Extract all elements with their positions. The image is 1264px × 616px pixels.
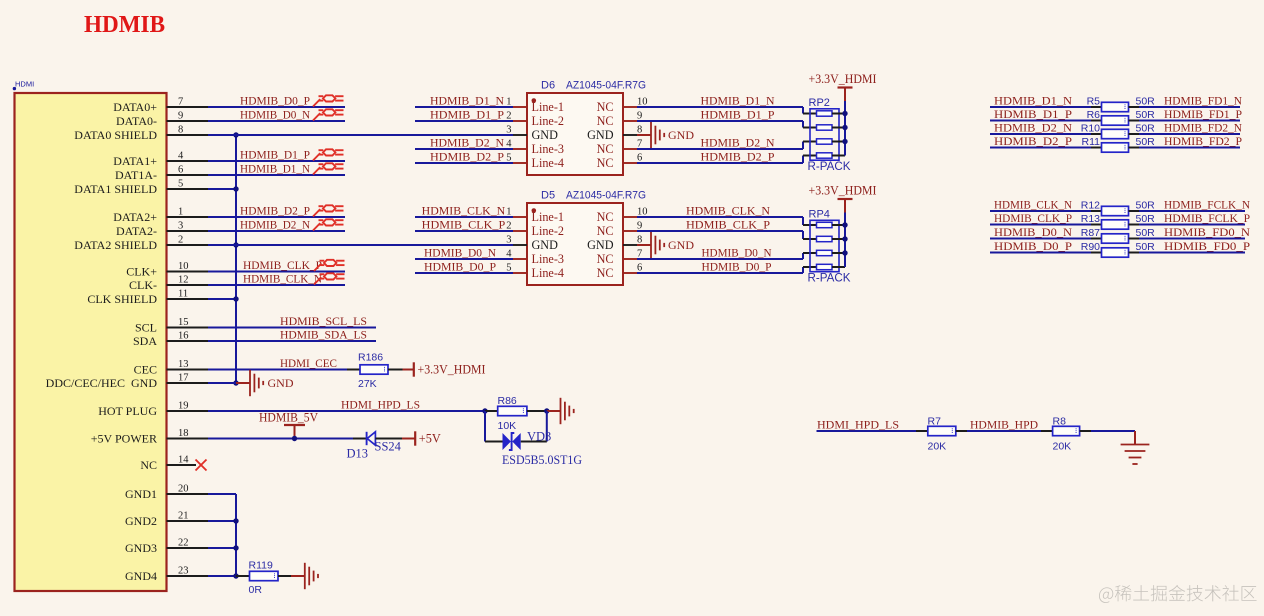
svg-text:HDMIB_CLK_N: HDMIB_CLK_N	[994, 199, 1073, 212]
svg-text:HDMIB_D1_P: HDMIB_D1_P	[240, 149, 310, 162]
connector pin 11 CLK SHIELD	[87, 289, 208, 306]
svg-text:HDMIB_D1_N: HDMIB_D1_N	[240, 163, 311, 176]
wire CLK SHIELD to bus	[208, 298, 236, 300]
svg-text:HDMIB_D0_P: HDMIB_D0_P	[240, 95, 310, 108]
net label HDMIB_D0_P	[702, 261, 772, 274]
connector pin 1 DATA2+	[113, 207, 208, 224]
net label HDMIB_D1_N	[240, 163, 311, 176]
net label HDMIB_D1_P	[701, 109, 776, 122]
net label HDMIB_D1_N	[430, 95, 505, 108]
svg-text:GND: GND	[268, 376, 294, 390]
svg-text:20K: 20K	[928, 441, 947, 453]
differential pair directive on HDMIB_CLK_N	[314, 273, 345, 284]
wire net HDMI_HPD_LS bottom	[817, 430, 917, 432]
junction GND3	[233, 545, 238, 550]
connector pin 2 DATA2 SHIELD	[74, 235, 208, 252]
resistor R186	[347, 352, 403, 391]
svg-text:CEC: CEC	[134, 363, 157, 377]
net label HDMIB_D1_P	[994, 108, 1073, 121]
wire net HDMIB_D2_P to RP2	[637, 156, 817, 164]
connector pin 20 GND1	[125, 484, 208, 501]
power ground GND at D5 pin 8	[637, 232, 694, 258]
net label HDMIB_SCL_LS	[280, 315, 367, 328]
svg-text:NC: NC	[140, 458, 157, 472]
svg-text:HDMIB_D1_N: HDMIB_D1_N	[994, 95, 1073, 108]
wire net HDMIB_CLK_N to RP4	[637, 217, 817, 225]
junction RP4 pin 2	[842, 236, 847, 241]
svg-text:GND: GND	[587, 238, 614, 252]
sheet label HDMI	[13, 80, 34, 91]
wire net HDMIB_CLK_P	[990, 224, 1091, 226]
net label HDMI_HPD_LS	[341, 399, 420, 412]
wire net HDMIB_D2_P	[208, 216, 345, 218]
svg-text:HDMIB_FD0_N: HDMIB_FD0_N	[1164, 226, 1251, 239]
net label HDMI_CEC	[280, 357, 337, 370]
svg-text:50R: 50R	[1136, 241, 1156, 253]
power port HDMIB_5V	[259, 410, 318, 438]
junction at pin17 GND	[233, 380, 238, 385]
wire net HDMIB_D0_N to D5	[415, 258, 513, 260]
svg-text:HDMI_HPD_LS: HDMI_HPD_LS	[341, 399, 420, 412]
wire net HDMIB_D0_N to RP4	[637, 253, 817, 259]
wire VD3 branch right	[521, 411, 547, 442]
svg-text:HDMIB_D0_P: HDMIB_D0_P	[702, 261, 772, 274]
svg-text:R90: R90	[1081, 241, 1100, 253]
connector pin 6 DAT1A-	[115, 165, 208, 182]
svg-text:NC: NC	[597, 224, 614, 238]
wire net HDMIB_D0_P to RP4	[637, 267, 817, 273]
svg-text:HDMIB: HDMIB	[84, 11, 165, 38]
connector pin 19 HOT PLUG	[98, 401, 208, 418]
wire DATA1 SHIELD to bus	[208, 188, 236, 190]
wire VD3 branch left	[485, 411, 503, 442]
TVS diode VD3 ESD5B5.0ST1G	[502, 429, 582, 467]
svg-text:NC: NC	[597, 156, 614, 170]
svg-text:R87: R87	[1081, 227, 1100, 239]
net label HDMIB_D2_N	[994, 122, 1073, 135]
svg-text:50R: 50R	[1136, 227, 1156, 239]
svg-text:SCL: SCL	[135, 321, 157, 335]
differential pair directive on HDMIB_D0_N	[313, 109, 344, 120]
svg-text:HDMIB_CLK_P: HDMIB_CLK_P	[994, 212, 1072, 225]
svg-text:R6: R6	[1087, 109, 1101, 121]
resistor R12 50R	[1081, 200, 1155, 216]
connector pin 7 DATA0+	[113, 97, 208, 114]
net label HDMIB_D2_N	[240, 219, 311, 232]
wire GND bus	[208, 494, 236, 576]
junction at R86 left	[482, 408, 487, 413]
resistor R8	[1041, 416, 1091, 453]
resistor pack RP4 R-PACK	[808, 209, 851, 285]
net label HDMIB_CLK_N	[243, 273, 323, 286]
net label HDMIB_D0_N	[994, 226, 1073, 239]
svg-text:GND: GND	[587, 128, 614, 142]
svg-text:GND: GND	[668, 128, 694, 142]
svg-text:Line-4: Line-4	[532, 266, 565, 280]
connector pin 21 GND2	[125, 511, 208, 528]
net label HDMIB_D2_P	[701, 151, 776, 164]
wire net HDMIB_D2_N to RP2	[637, 142, 817, 150]
net label HDMIB_FD1_N	[1164, 95, 1243, 108]
junction at DATA0 SHIELD	[233, 132, 238, 137]
junction GND2	[233, 518, 238, 523]
resistor R11 50R	[1082, 136, 1156, 152]
svg-text:GND3: GND3	[125, 541, 157, 555]
svg-text:DATA2 SHIELD: DATA2 SHIELD	[74, 238, 157, 252]
svg-text:HDMIB_D1_P: HDMIB_D1_P	[994, 108, 1073, 121]
svg-text:0R: 0R	[249, 584, 263, 596]
net label HDMIB_D0_P	[994, 240, 1073, 253]
D6 pin 4 Line-3	[506, 139, 564, 157]
svg-text:RP4: RP4	[809, 209, 830, 221]
wire net HDMIB_D0_N	[208, 120, 345, 122]
net label HDMIB_D2_P	[430, 151, 505, 164]
wire net HDMIB_CLK_N to D5	[415, 216, 513, 218]
diode D13 SS24	[347, 432, 403, 461]
D5 pin 9 NC	[597, 221, 643, 239]
svg-text:HDMIB_D0_P: HDMIB_D0_P	[424, 261, 496, 274]
svg-text:CLK-: CLK-	[129, 278, 157, 292]
net label HDMIB_CLK_N	[994, 199, 1073, 212]
svg-text:GND1: GND1	[125, 487, 157, 501]
net label HDMIB_D0_P	[424, 261, 496, 274]
svg-text:R8: R8	[1053, 416, 1067, 428]
svg-text:HDMIB_D2_N: HDMIB_D2_N	[701, 137, 776, 150]
svg-text:20K: 20K	[1053, 441, 1072, 453]
svg-text:Line-2: Line-2	[532, 224, 565, 238]
D5 pin 8 GND	[587, 235, 642, 253]
wire net HDMIB_D1_P	[990, 120, 1091, 122]
svg-text:DDC/CEC/HEC GND: DDC/CEC/HEC GND	[46, 376, 158, 390]
svg-text:HDMIB_FD2_P: HDMIB_FD2_P	[1164, 135, 1242, 148]
svg-text:GND2: GND2	[125, 514, 157, 528]
junction RP2 pin 1	[842, 111, 847, 116]
wire net HDMIB_D0_P	[208, 106, 345, 108]
svg-text:Line-4: Line-4	[532, 156, 565, 170]
svg-text:D13: D13	[347, 446, 369, 460]
svg-text:+3.3V_HDMI: +3.3V_HDMI	[809, 72, 877, 86]
power port +5V	[402, 431, 441, 445]
svg-text:SDA: SDA	[133, 334, 157, 348]
svg-text:NC: NC	[597, 252, 614, 266]
net label HDMIB_SDA_LS	[280, 329, 367, 342]
svg-text:DAT1A-: DAT1A-	[115, 168, 157, 182]
svg-text:HDMI: HDMI	[15, 80, 34, 89]
resistor R90 50R	[1081, 241, 1155, 257]
svg-text:HDMIB_D2_N: HDMIB_D2_N	[994, 122, 1073, 135]
svg-text:HDMIB_FD0_P: HDMIB_FD0_P	[1164, 240, 1251, 253]
wire net HDMIB_CLK_P to RP4	[637, 231, 817, 239]
svg-text:+5V: +5V	[419, 432, 441, 446]
svg-text:R119: R119	[249, 559, 273, 571]
svg-text:HDMIB_CLK_P: HDMIB_CLK_P	[243, 259, 322, 272]
connector pin 10 CLK+	[126, 261, 208, 278]
connector pin 13 CEC	[134, 359, 208, 376]
D5 pin 10 NC	[597, 207, 648, 225]
svg-text:HDMIB_CLK_N: HDMIB_CLK_N	[243, 273, 323, 286]
differential pair directive on HDMIB_D0_P	[313, 95, 344, 106]
svg-text:HDMIB_D2_N: HDMIB_D2_N	[240, 219, 311, 232]
svg-text:GND: GND	[532, 238, 559, 252]
svg-text:GND4: GND4	[125, 569, 157, 583]
svg-text:DATA1+: DATA1+	[113, 154, 157, 168]
svg-text:50R: 50R	[1136, 96, 1156, 108]
svg-text:HDMIB_D2_P: HDMIB_D2_P	[701, 151, 776, 164]
svg-text:3: 3	[506, 125, 511, 136]
wire net HDMIB_D2_N to D6	[415, 148, 513, 150]
net label HDMIB_D0_N	[424, 247, 497, 260]
power ground at R119	[291, 563, 318, 589]
svg-text:HDMIB_D1_N: HDMIB_D1_N	[430, 95, 505, 108]
svg-text:HDMIB_SDA_LS: HDMIB_SDA_LS	[280, 329, 367, 342]
svg-text:R10: R10	[1081, 123, 1100, 135]
wire net HDMIB_FCLK_P	[1139, 224, 1245, 226]
svg-text:50R: 50R	[1136, 123, 1156, 135]
svg-text:NC: NC	[597, 210, 614, 224]
wire net HDMIB_HPD	[967, 430, 1041, 432]
power ground at R8	[1121, 445, 1150, 465]
svg-text:NC: NC	[597, 266, 614, 280]
net label HDMIB_D2_N	[701, 137, 776, 150]
svg-text:10K: 10K	[498, 420, 517, 432]
svg-text:50R: 50R	[1136, 136, 1156, 148]
svg-text:HDMIB_SCL_LS: HDMIB_SCL_LS	[280, 315, 367, 328]
svg-text:HDMIB_FD1_P: HDMIB_FD1_P	[1164, 108, 1242, 121]
net label HDMIB_CLK_N	[686, 205, 771, 218]
power ground at R86 right	[547, 398, 574, 424]
svg-text:CLK+: CLK+	[126, 265, 157, 279]
svg-text:HDMIB_CLK_N: HDMIB_CLK_N	[686, 205, 771, 218]
resistor R86	[485, 395, 547, 432]
resistor R5 50R	[1087, 96, 1156, 112]
wire net HDMIB_D1_N	[990, 106, 1091, 108]
wire RP4 common bus	[844, 213, 846, 268]
wire shield row to D6 pin3	[208, 134, 513, 136]
wire net HDMIB_D0_P	[990, 252, 1091, 254]
net label HDMIB_D1_P	[430, 109, 505, 122]
connector pin 4 DATA1+	[113, 151, 208, 168]
svg-text:HDMIB_D2_N: HDMIB_D2_N	[430, 137, 505, 150]
svg-text:HDMIB_FD2_N: HDMIB_FD2_N	[1164, 122, 1243, 135]
net label HDMIB_FD0_N	[1164, 226, 1251, 239]
power ground GND at pin17	[250, 370, 294, 396]
connector pin 14 NC	[140, 455, 196, 472]
svg-text:HDMIB_D1_P: HDMIB_D1_P	[430, 109, 505, 122]
wire pin18 to D13	[208, 438, 353, 440]
svg-text:HOT PLUG: HOT PLUG	[98, 404, 157, 418]
D5 pin 7 NC	[597, 249, 643, 267]
connector pin 17 DDC/CEC/HEC GND	[46, 373, 208, 390]
D6 pin 1 Line-1	[506, 97, 564, 115]
wire pin17 to ground	[208, 382, 250, 384]
svg-text:D6: D6	[541, 80, 555, 92]
net label HDMIB_CLK_P	[994, 212, 1072, 225]
net label HDMI_HPD_LS bottom	[817, 419, 899, 432]
wire net HDMIB_CLK_N	[990, 210, 1091, 212]
junction at CLK SHIELD	[233, 296, 238, 301]
connector pin 18 +5V POWER	[91, 428, 208, 445]
svg-text:HDMIB_D0_N: HDMIB_D0_N	[702, 247, 773, 260]
junction RP2 pin 3	[842, 139, 847, 144]
svg-text:HDMIB_D2_P: HDMIB_D2_P	[240, 205, 310, 218]
net label HDMIB_D2_N	[430, 137, 505, 150]
net label HDMIB_D0_P	[240, 95, 310, 108]
wire net HDMIB_D0_P to D5	[415, 272, 513, 274]
D5 pin 1 Line-1	[506, 207, 564, 225]
net label HDMIB_CLK_P	[686, 219, 771, 232]
svg-text:50R: 50R	[1136, 200, 1156, 212]
svg-text:R13: R13	[1081, 213, 1100, 225]
svg-text:AZ1045-04F.R7G: AZ1045-04F.R7G	[566, 80, 646, 92]
svg-text:HDMIB_CLK_P: HDMIB_CLK_P	[686, 219, 771, 232]
connector pin 12 CLK-	[129, 275, 208, 292]
junction RP4 pin 1	[842, 222, 847, 227]
D6 pin 10 NC	[597, 97, 648, 115]
junction at R86 right	[544, 408, 549, 413]
resistor R6 50R	[1087, 109, 1156, 125]
net label HDMIB_FD2_P	[1164, 135, 1242, 148]
wire R8 to ground	[1091, 431, 1135, 445]
svg-text:Line-3: Line-3	[532, 142, 565, 156]
wire net HDMIB_CLK_P to D5	[415, 230, 513, 232]
junction at DATA1 SHIELD	[233, 186, 238, 191]
wire net HDMIB_D1_N to RP2	[637, 107, 817, 114]
no connect cross at pin14	[196, 460, 207, 471]
wire net HDMIB_D2_P	[990, 147, 1091, 149]
svg-text:NC: NC	[597, 100, 614, 114]
wire net HDMIB_D1_P to D6	[415, 120, 513, 122]
wire net HDMIB_FD1_P	[1139, 120, 1240, 122]
svg-text:27K: 27K	[358, 378, 377, 390]
svg-text:AZ1045-04F.R7G: AZ1045-04F.R7G	[566, 190, 646, 202]
IC D6 AZ1045-04F.R7G body	[527, 80, 646, 176]
connector pin 22 GND3	[125, 538, 208, 555]
power port +3.3V_HDMI at RP4	[809, 184, 877, 213]
svg-text:HDMIB_D1_P: HDMIB_D1_P	[701, 109, 776, 122]
D5 pin 3 GND	[506, 235, 558, 253]
svg-text:HDMI_HPD_LS: HDMI_HPD_LS	[817, 419, 899, 432]
svg-text:HDMIB_D0_N: HDMIB_D0_N	[424, 247, 497, 260]
junction RP2 pin 2	[842, 125, 847, 130]
D6 pin 9 NC	[597, 111, 643, 129]
wire net HDMIB_CLK_N	[208, 284, 345, 286]
D6 pin 8 GND	[587, 125, 642, 143]
wire net HDMIB_FD2_P	[1139, 147, 1240, 149]
net label HDMIB_D1_N	[701, 95, 776, 108]
connector pin 16 SDA	[133, 331, 208, 348]
svg-text:HDMIB_D2_P: HDMIB_D2_P	[430, 151, 505, 164]
wire net HDMIB_D2_N	[990, 133, 1091, 135]
svg-text:R86: R86	[498, 395, 517, 407]
svg-text:RP2: RP2	[809, 97, 830, 109]
net label HDMIB_D1_P	[240, 149, 310, 162]
svg-text:DATA1 SHIELD: DATA1 SHIELD	[74, 182, 157, 196]
svg-text:DATA2+: DATA2+	[113, 210, 157, 224]
resistor R13 50R	[1081, 213, 1155, 229]
power ground GND at D6 pin 8	[637, 122, 694, 148]
svg-text:50R: 50R	[1136, 213, 1156, 225]
svg-text:HDMIB_FCLK_P: HDMIB_FCLK_P	[1164, 212, 1250, 225]
net label HDMIB_D2_P	[994, 135, 1073, 148]
svg-text:Line-2: Line-2	[532, 114, 565, 128]
svg-text:VD3: VD3	[527, 429, 551, 443]
wire net HDMIB_FD0_N	[1139, 238, 1245, 240]
svg-text:R12: R12	[1081, 200, 1100, 212]
D5 pin 4 Line-3	[506, 249, 564, 267]
svg-text:HDMIB_D1_N: HDMIB_D1_N	[701, 95, 776, 108]
wire net HDMIB_D2_N	[208, 230, 345, 232]
wire net HDMIB_FD1_N	[1139, 106, 1240, 108]
svg-text:3: 3	[506, 235, 511, 246]
HDMI connector J1 body	[15, 93, 167, 591]
wire net HDMI_HPD_LS	[208, 410, 485, 412]
svg-text:CLK SHIELD: CLK SHIELD	[87, 292, 157, 306]
svg-text:GND: GND	[668, 238, 694, 252]
svg-text:R-PACK: R-PACK	[808, 273, 851, 285]
wire net HDMIB_FCLK_N	[1139, 210, 1245, 212]
svg-text:+3.3V_HDMI: +3.3V_HDMI	[418, 363, 486, 377]
svg-text:HDMIB_5V: HDMIB_5V	[259, 410, 318, 424]
svg-text:DATA0-: DATA0-	[116, 114, 157, 128]
differential pair directive on HDMIB_D2_N	[313, 219, 344, 230]
svg-text:HDMIB_D0_P: HDMIB_D0_P	[994, 240, 1073, 253]
svg-text:HDMIB_FD1_N: HDMIB_FD1_N	[1164, 95, 1243, 108]
wire net HDMIB_D1_N	[208, 174, 345, 176]
wire shield bus vertical	[235, 135, 237, 383]
svg-text:Line-1: Line-1	[532, 210, 565, 224]
svg-text:HDMIB_HPD: HDMIB_HPD	[970, 419, 1038, 432]
connector pin 9 DATA0-	[116, 111, 208, 128]
wire shield row to D5 pin3	[208, 244, 513, 246]
D6 pin 5 Line-4	[506, 153, 564, 171]
D5 pin 2 Line-2	[506, 221, 564, 239]
resistor pack RP2 R-PACK	[808, 97, 851, 173]
svg-text:HDMIB_D0_N: HDMIB_D0_N	[240, 109, 311, 122]
junction GND4	[233, 573, 238, 578]
svg-text:DATA0+: DATA0+	[113, 100, 157, 114]
svg-text:HDMIB_D2_P: HDMIB_D2_P	[994, 135, 1073, 148]
net label HDMIB_CLK_P	[422, 219, 506, 232]
svg-text:Line-3: Line-3	[532, 252, 565, 266]
wire net HDMIB_D2_P to D6	[415, 162, 513, 164]
power port +3.3V_HDMI at R186	[403, 362, 486, 376]
connector pin 23 GND4	[125, 566, 208, 583]
svg-text:D5: D5	[541, 190, 555, 202]
D6 pin 2 Line-2	[506, 111, 564, 129]
differential pair directive on HDMIB_D1_N	[313, 163, 344, 174]
wire RP2 common bus	[844, 101, 846, 156]
junction at DATA2 SHIELD	[233, 242, 238, 247]
net label HDMIB_D0_N	[240, 109, 311, 122]
differential pair directive on HDMIB_D1_P	[313, 149, 344, 160]
wire net HDMIB_D1_P	[208, 160, 345, 162]
svg-text:HDMI_CEC: HDMI_CEC	[280, 357, 337, 370]
net label HDMIB_FCLK_N	[1164, 199, 1251, 212]
svg-text:HDMIB_CLK_P: HDMIB_CLK_P	[422, 219, 506, 232]
net label HDMIB_FD1_P	[1164, 108, 1242, 121]
svg-text:R186: R186	[358, 352, 383, 364]
connector pin 3 DATA2-	[116, 221, 208, 238]
net label HDMIB_FCLK_P	[1164, 212, 1250, 225]
D6 pin 6 NC	[597, 153, 643, 171]
svg-text:HDMIB_CLK_N: HDMIB_CLK_N	[422, 205, 506, 218]
svg-text:Line-1: Line-1	[532, 100, 565, 114]
svg-text:SS24: SS24	[375, 439, 402, 453]
resistor R10 50R	[1081, 123, 1155, 139]
resistor R7	[916, 416, 967, 453]
net label HDMIB_FD2_N	[1164, 122, 1243, 135]
differential pair directive on HDMIB_D2_P	[313, 205, 344, 216]
